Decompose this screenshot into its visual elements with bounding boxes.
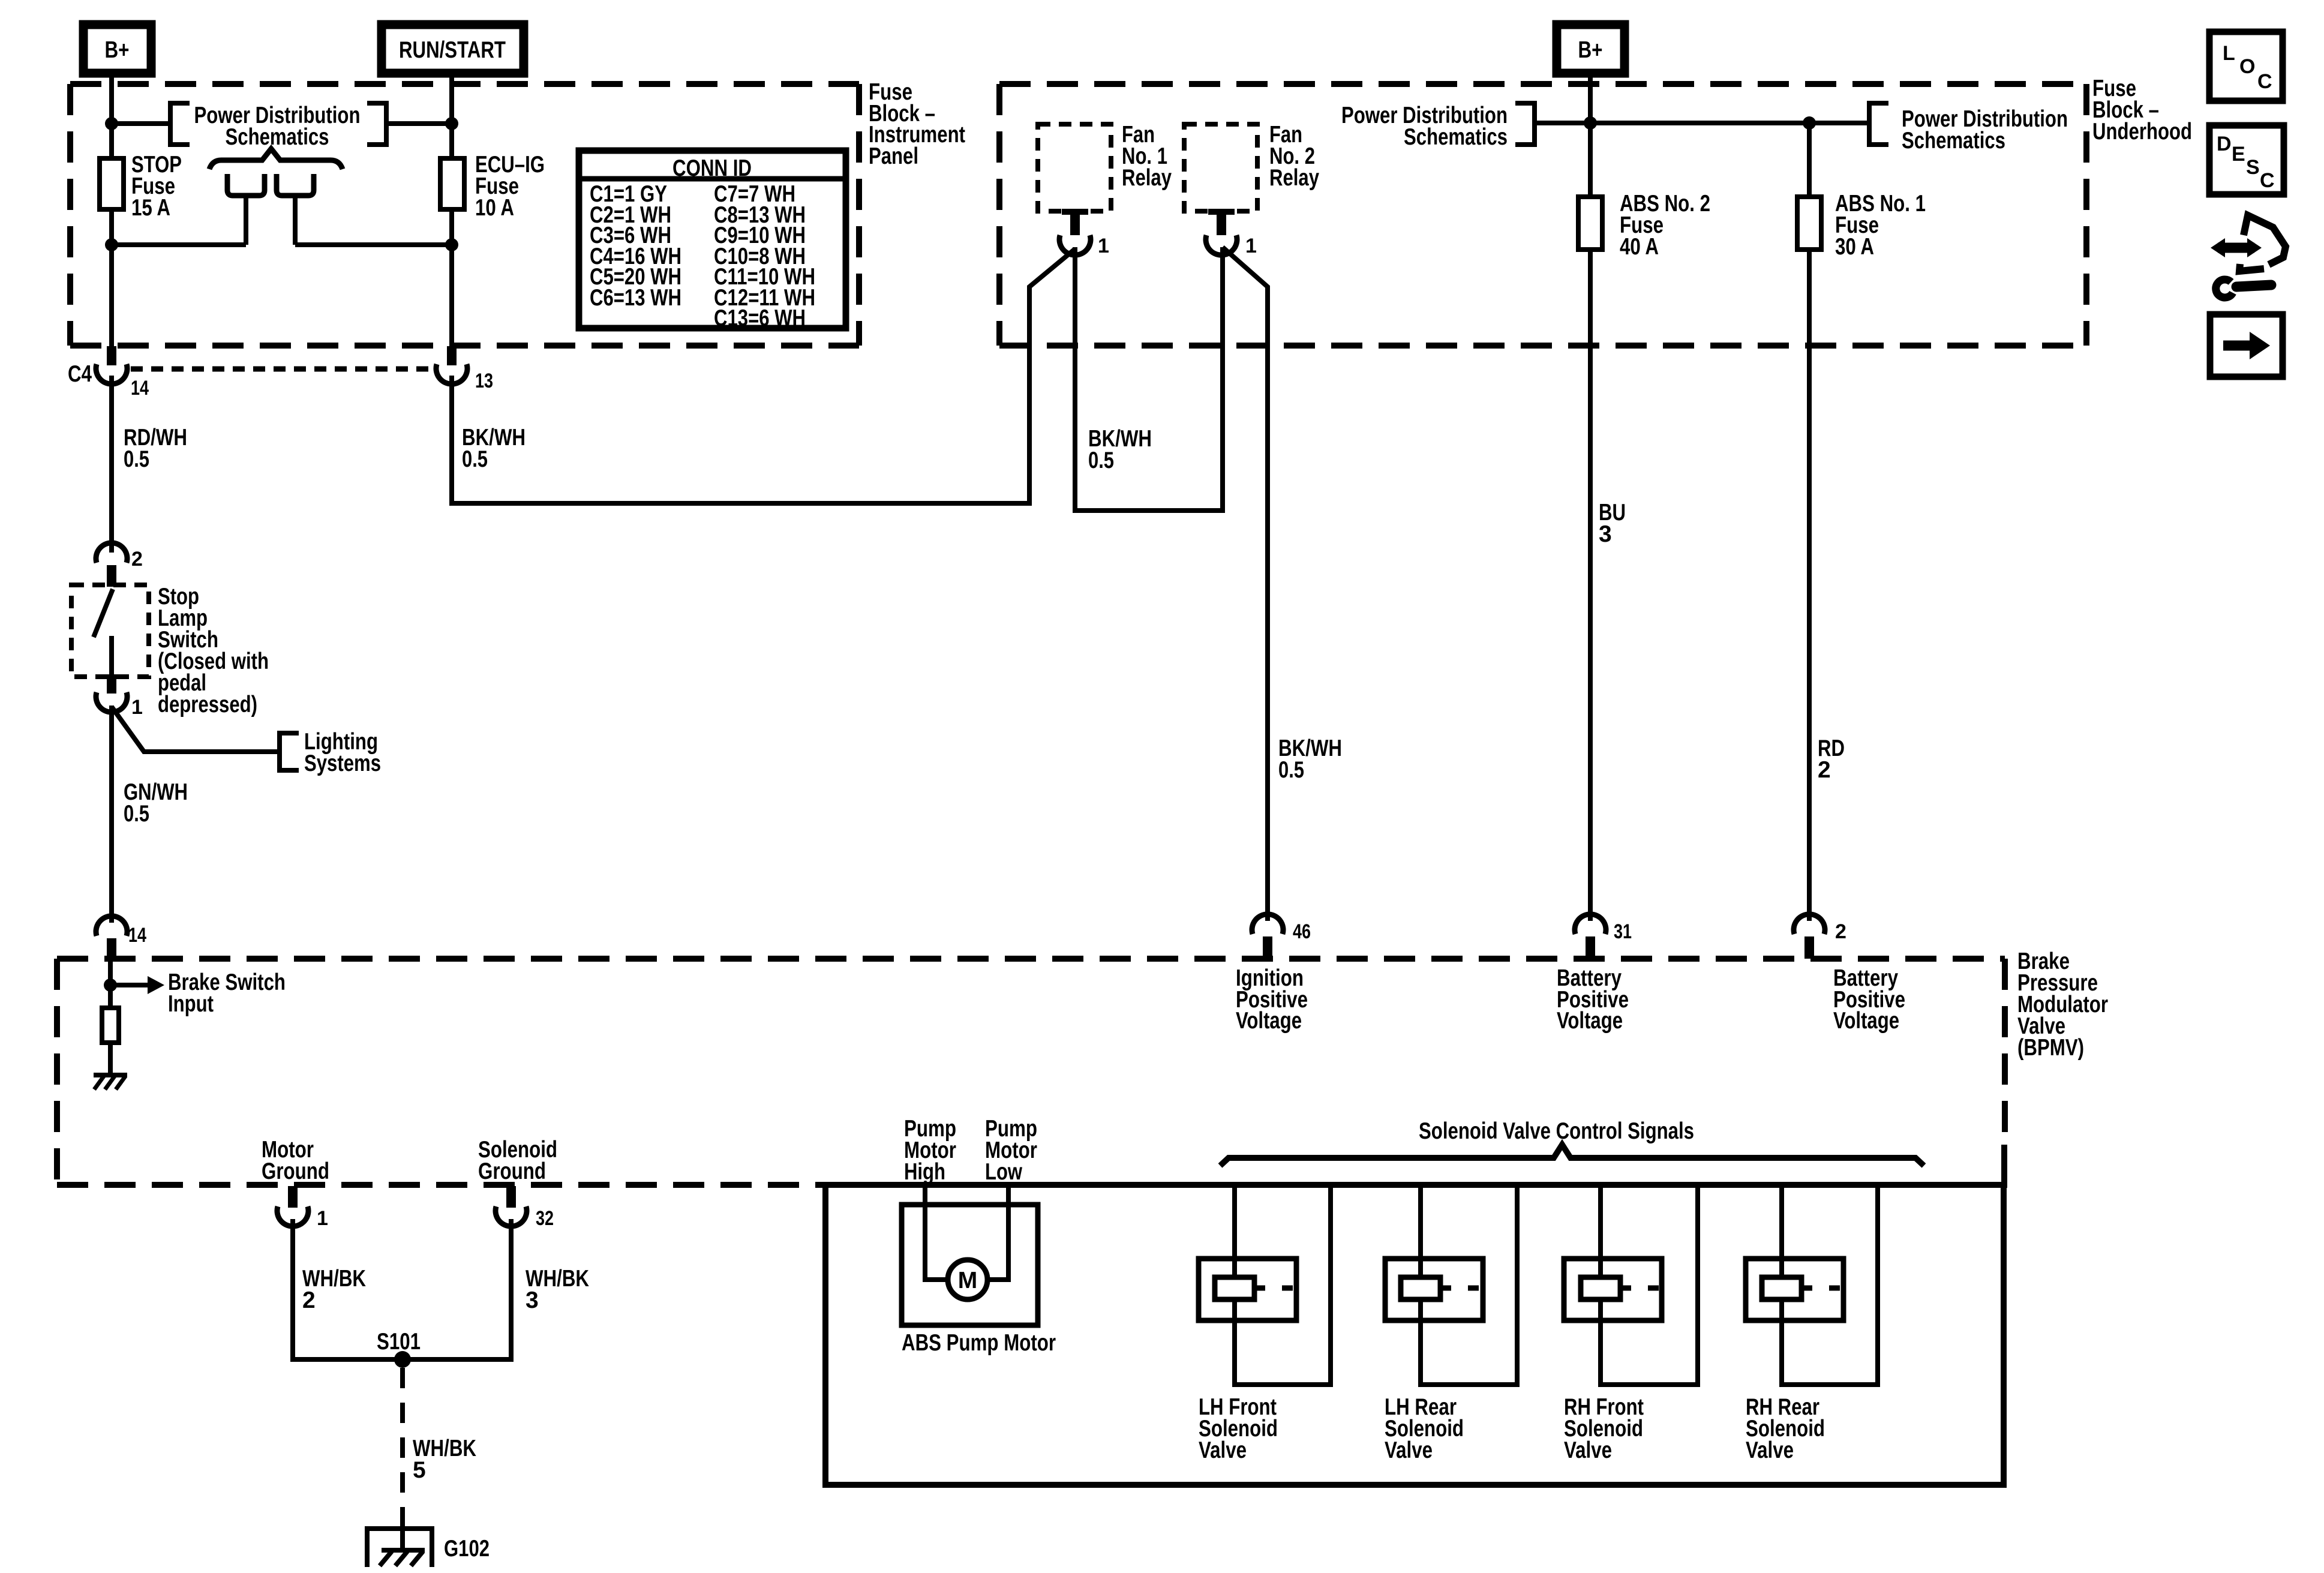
node junction at B+ underhood [1584, 116, 1597, 130]
stop lamp switch S dashed box [71, 585, 149, 677]
svg-text:2: 2 [131, 548, 143, 571]
svg-text:Valve: Valve [1199, 1437, 1247, 1463]
fuse ABS No.1 30A [1797, 197, 1821, 250]
ground G102 [365, 1529, 490, 1567]
svg-text:14: 14 [131, 377, 149, 400]
wire RD down to connector 2 [1807, 250, 1812, 921]
connector cavity symbol left [227, 174, 265, 196]
label: WH/BK 2 [302, 1266, 366, 1313]
svg-text:5: 5 [413, 1457, 426, 1483]
node junction dot right [445, 238, 458, 251]
solenoid valve LH rear: box [1385, 1259, 1483, 1320]
svg-text:(BPMV): (BPMV) [2017, 1035, 2084, 1061]
svg-text:13: 13 [475, 370, 493, 392]
svg-text:3: 3 [1599, 521, 1612, 547]
solenoid valve LH front: coil [1215, 1277, 1254, 1299]
solenoid valve RH front: box [1564, 1259, 1662, 1320]
svg-text:Voltage: Voltage [1236, 1008, 1302, 1034]
solenoid valve RH rear: wires [1782, 1185, 1878, 1385]
label: Pump Motor High [904, 1116, 956, 1185]
svg-text:1: 1 [131, 696, 143, 719]
svg-text:L: L [2223, 42, 2235, 65]
fuse ABS No.2 40A [1578, 197, 1602, 250]
connector 31 at BPMV [1575, 914, 1632, 959]
solenoid valve RH rear: coil [1762, 1277, 1801, 1299]
wire BU down to connector 31 [1588, 250, 1593, 921]
connector C4 pin 14 [68, 346, 149, 400]
wire ECU-IG fuse to connector 13 [449, 209, 454, 346]
fuse ECU-IG 10A [440, 158, 464, 209]
label: Power Distribution Schematics (underhood left) [1341, 103, 1508, 150]
svg-text:ABS Pump Motor: ABS Pump Motor [902, 1330, 1056, 1356]
label: Battery Positive Voltage (31) [1557, 965, 1629, 1034]
power node B+ (underhood) [1557, 25, 1625, 73]
wire WH/BK 3 solenoid ground to S101 [409, 1219, 511, 1359]
wire B+ underhood down [1588, 73, 1593, 197]
svg-text:32: 32 [536, 1207, 554, 1230]
svg-text:Valve: Valve [1746, 1437, 1794, 1463]
svg-text:Ground: Ground [478, 1158, 546, 1184]
svg-text:Valve: Valve [1564, 1437, 1612, 1463]
svg-text:High: High [904, 1159, 945, 1185]
wire branch to lighting systems [112, 707, 280, 752]
wire resistor to ground [108, 1043, 113, 1075]
wire pump motor high [925, 1185, 948, 1280]
svg-text:Relay: Relay [1269, 165, 1319, 191]
svg-text:2: 2 [302, 1287, 316, 1313]
ground (internal) [94, 1075, 127, 1089]
solenoid valve LH rear: dashed link [1440, 1286, 1483, 1291]
svg-text:depressed): depressed) [158, 692, 257, 718]
wire bracket to B+ wire [1535, 121, 1590, 125]
wire across to ABS No.1 branch and bracket [1590, 121, 1869, 125]
label: Lighting Systems [304, 729, 381, 776]
solenoid valve LH front: dashed link [1254, 1286, 1296, 1291]
icon arrow box [2210, 314, 2283, 377]
bracket [ for Power Distribution Schematics (left) [170, 103, 190, 145]
label: RH Front Solenoid Valve [1564, 1394, 1644, 1463]
svg-text:46: 46 [1293, 920, 1311, 943]
connector cavity symbol right [277, 174, 314, 196]
wire horizontal STOP to cavity [112, 242, 246, 247]
svg-text:0.5: 0.5 [124, 801, 149, 827]
solenoid valve RH front: wires [1601, 1185, 1698, 1385]
label: BK/WH 0.5 (relay) [1088, 426, 1152, 473]
label: Brake Pressure Modulator Valve (BPMV) [2017, 948, 2108, 1061]
wire horizontal cavity to ECU-IG [295, 242, 452, 247]
wire brake switch input [108, 960, 113, 1008]
dashed wire WH/BK 5 to G102 [400, 1368, 405, 1529]
relay 2 pin 1 connector [1206, 209, 1257, 257]
label: Fuse Block - Instrument Panel [869, 79, 965, 169]
svg-text:M: M [958, 1268, 978, 1293]
switch blade [94, 589, 113, 637]
wire junction to bracket [112, 121, 170, 126]
power node RUN/START [382, 25, 524, 73]
label: BK/WH 0.5 (left) [462, 425, 526, 472]
icon LOC box [2209, 32, 2283, 101]
fuse block - underhood dashed box [999, 84, 2086, 346]
svg-text:Schematics: Schematics [1902, 128, 2005, 154]
wire pump motor low [987, 1185, 1008, 1280]
svg-text:S: S [2246, 156, 2260, 179]
svg-text:30 A: 30 A [1835, 234, 1874, 260]
node junction at ABS No.1 branch [1803, 116, 1816, 130]
resistor brake switch pull-down [102, 1008, 119, 1043]
svg-text:Systems: Systems [304, 751, 381, 776]
connector 1 motor ground [277, 1186, 328, 1230]
brace under Power Distribution Schematics [209, 149, 343, 169]
bracket ] for Power Distribution Schematics (left) [367, 103, 386, 145]
svg-text:31: 31 [1614, 920, 1632, 943]
svg-text:C13=6 WH: C13=6 WH [714, 305, 806, 331]
right edge solid joiner [2001, 1145, 2007, 1188]
label: Battery Positive Voltage (2) [1833, 965, 1905, 1034]
label: BK/WH 0.5 (ignition feed) [1278, 736, 1342, 783]
label: GN/WH 0.5 [124, 779, 188, 827]
svg-text:B+: B+ [1578, 37, 1603, 63]
motor M circle [948, 1260, 987, 1299]
node junction on B+ wire [105, 117, 118, 130]
svg-text:C4: C4 [68, 361, 92, 387]
svg-text:14: 14 [128, 924, 146, 947]
solenoid valve RH front: coil [1581, 1277, 1620, 1299]
svg-text:0.5: 0.5 [1088, 448, 1114, 473]
wire RUN/START down to ECU-IG fuse [449, 73, 454, 158]
label: ABS No. 2 Fuse 40 A [1620, 191, 1710, 260]
svg-text:B+: B+ [105, 37, 130, 63]
wire WH/BK 2 motor ground to S101 [293, 1219, 396, 1359]
svg-text:1: 1 [1098, 235, 1109, 257]
solenoid valve RH front: dashed link [1620, 1286, 1662, 1291]
svg-text:Schematics: Schematics [1404, 124, 1508, 150]
svg-text:S101: S101 [377, 1329, 421, 1355]
connector 13 pin [436, 346, 493, 392]
svg-text:1: 1 [1245, 235, 1257, 257]
svg-text:Input: Input [168, 991, 214, 1017]
svg-text:C: C [2260, 169, 2275, 192]
BPMV solid inner box [825, 1185, 2004, 1485]
svg-text:Voltage: Voltage [1557, 1008, 1623, 1034]
svg-text:D: D [2217, 133, 2232, 155]
label: LH Rear Solenoid Valve [1385, 1394, 1464, 1463]
label: ECU-IG Fuse 10 A [475, 152, 545, 221]
label: Fan No. 1 Relay [1122, 122, 1172, 191]
icon DESC box [2209, 125, 2284, 194]
svg-text:0.5: 0.5 [1278, 757, 1304, 783]
svg-text:G102: G102 [444, 1536, 490, 1562]
label: Power Distribution Schematics (instrument panel) [194, 103, 361, 150]
wire relay2 down to connector 46 [1223, 247, 1268, 921]
wire bracket to RUN/START line [386, 121, 452, 126]
relay 1 pin 1 connector [1059, 209, 1109, 257]
svg-text:Panel: Panel [869, 143, 918, 169]
node junction dot left [105, 238, 118, 251]
svg-text:10 A: 10 A [475, 195, 514, 221]
svg-text:2: 2 [1835, 920, 1846, 943]
solenoid valve RH rear: box [1746, 1259, 1843, 1320]
wire cavity right down [293, 196, 298, 245]
svg-text:1: 1 [317, 1207, 328, 1230]
svg-text:Solenoid Valve Control Signals: Solenoid Valve Control Signals [1419, 1118, 1694, 1144]
svg-text:Valve: Valve [1385, 1437, 1433, 1463]
BPMV dashed box [57, 959, 2005, 1185]
label: RD/WH 0.5 [124, 425, 187, 472]
connector 46 at BPMV [1252, 914, 1311, 959]
wire BK/WH from 13 to fan relay no.1 [452, 249, 1075, 503]
connector 2 at BPMV [1794, 914, 1846, 959]
svg-text:3: 3 [526, 1287, 539, 1313]
svg-text:Voltage: Voltage [1833, 1008, 1899, 1034]
dotted connector line C4 to 13 [131, 367, 433, 372]
node junction brake switch [104, 978, 117, 992]
label: Ignition Positive Voltage [1236, 965, 1308, 1034]
label: LH Front Solenoid Valve [1199, 1394, 1278, 1463]
switch lower contact wire [109, 636, 114, 674]
fan relay no.1 dashed box [1038, 124, 1111, 211]
solenoid valve LH front: wires [1235, 1185, 1331, 1385]
connector 1 below stop lamp switch [96, 674, 143, 719]
label: Stop Lamp Switch (Closed with pedal depressed) [158, 584, 269, 718]
svg-text:C: C [2257, 70, 2272, 93]
wire STOP fuse to connector C4 [109, 209, 114, 346]
label: RD 2 [1818, 736, 1845, 783]
svg-text:Ground: Ground [262, 1158, 329, 1184]
label: Power Distribution Schematics (underhood right) [1902, 106, 2068, 154]
bracket ] underhood left [1515, 103, 1535, 145]
label: Fan No. 2 Relay [1269, 122, 1319, 191]
solenoid valve RH rear: dashed link [1801, 1286, 1843, 1291]
solenoid valve LH rear: wires [1421, 1185, 1517, 1385]
label: STOP Fuse 15 A [131, 152, 182, 221]
svg-text:0.5: 0.5 [124, 446, 149, 472]
ABS pump motor box [902, 1205, 1038, 1325]
wire B+ down to STOP fuse [109, 73, 114, 158]
node junction on RUN/START wire [445, 117, 458, 130]
icon hood with double arrow [2211, 215, 2286, 271]
label: Fuse Block - Underhood [2092, 76, 2192, 145]
svg-text:Schematics: Schematics [226, 124, 329, 150]
label: Motor Ground [262, 1137, 329, 1184]
brace solenoid valve control signals [1220, 1145, 1924, 1166]
svg-text:RUN/START: RUN/START [399, 37, 506, 63]
svg-text:C6=13 WH: C6=13 WH [590, 285, 681, 311]
arrow brake switch input [110, 976, 164, 994]
svg-text:Relay: Relay [1122, 165, 1172, 191]
wire GN/WH down to connector 14 [109, 706, 114, 923]
splice S101 [377, 1329, 421, 1368]
CONN ID table [579, 151, 846, 331]
wire ABS No.1 branch down to fuse [1807, 123, 1812, 197]
connector 2 at stop lamp switch [96, 543, 143, 587]
label: Pump Motor Low [985, 1116, 1037, 1185]
svg-text:O: O [2239, 55, 2255, 78]
solenoid valve LH rear: coil [1401, 1277, 1440, 1299]
wire relay1 to relay2 loop [1075, 247, 1223, 511]
svg-text:Low: Low [985, 1159, 1023, 1185]
wire cavity left down [244, 196, 248, 245]
label: BU 3 [1599, 500, 1626, 547]
fan relay no.2 dashed box [1184, 124, 1257, 211]
connector 32 solenoid ground [496, 1186, 554, 1230]
label: Brake Switch Input [168, 969, 286, 1017]
svg-text:E: E [2232, 143, 2245, 166]
svg-text:Underhood: Underhood [2092, 119, 2192, 145]
svg-text:CONN ID: CONN ID [672, 155, 752, 181]
connector 14 at BPMV [96, 916, 146, 960]
wire RD/WH from C4 to connector 2 [109, 376, 114, 553]
label: WH/BK 5 [413, 1436, 476, 1483]
fuse STOP 15A [100, 158, 124, 209]
power node B+ (instrument panel feed) [83, 25, 151, 73]
svg-text:15 A: 15 A [131, 195, 170, 221]
label: RH Rear Solenoid Valve [1746, 1394, 1825, 1463]
bracket [ lighting systems [280, 733, 299, 770]
svg-text:0.5: 0.5 [462, 446, 488, 472]
svg-text:2: 2 [1818, 757, 1831, 783]
label: Solenoid Ground [478, 1137, 557, 1184]
fuse block - instrument panel dashed box [70, 84, 859, 346]
bracket [ underhood right [1869, 103, 1888, 145]
solenoid valve LH front: box [1199, 1259, 1296, 1320]
svg-text:40 A: 40 A [1620, 234, 1659, 260]
icon wrench [2216, 280, 2271, 298]
label: ABS No. 1 Fuse 30 A [1835, 191, 1926, 260]
label: WH/BK 3 [526, 1266, 589, 1313]
